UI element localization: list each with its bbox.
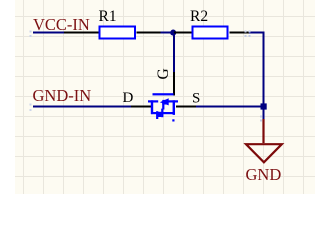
- channel bar left segment: [148, 100, 158, 102]
- resistor R1: [100, 27, 136, 39]
- bottom rail: [151, 112, 175, 114]
- resistor R2: [193, 27, 228, 39]
- wire end ghost marks: [30, 31, 32, 33]
- wire end ghost marks: [260, 116, 262, 118]
- svg-text:G: G: [155, 68, 172, 79]
- wire R2 to right corner: [249, 33, 264, 107]
- pin R2.2: [230, 32, 250, 34]
- svg-text:R1: R1: [99, 8, 117, 25]
- gate bar: [153, 93, 174, 95]
- svg-text:VCC-IN: VCC-IN: [33, 15, 90, 34]
- junction node S-net: [261, 103, 267, 109]
- sheet background: [0, 0, 315, 194]
- diode body fill: [158, 112, 162, 117]
- diode cathode bar: [161, 109, 163, 118]
- svg-text:GND-IN: GND-IN: [33, 86, 92, 105]
- svg-text:S: S: [192, 91, 200, 107]
- svg-text:D: D: [123, 90, 134, 106]
- svg-text:R2: R2: [190, 8, 208, 25]
- wire VCC rail: [33, 32, 99, 34]
- pin Q1.G: [173, 72, 175, 96]
- wire S to junction: [196, 106, 265, 108]
- wire gate vertical: [173, 33, 175, 75]
- pin Q1.D: [131, 106, 151, 108]
- pin R1.1: [64, 32, 99, 34]
- source leg: [173, 100, 175, 115]
- pin R1.2: [137, 32, 161, 34]
- wire GND stem (navy part): [263, 107, 265, 120]
- pin R2.1: [174, 32, 193, 34]
- junction node G-net: [170, 30, 176, 36]
- transistor Q1 (P-MOSFET): [148, 93, 178, 121]
- stem: [262, 119, 264, 143]
- wire R1 to junction: [161, 32, 175, 34]
- wire GND-IN rail: [33, 106, 131, 108]
- stray pin dot: [172, 119, 174, 121]
- pin Q1.S: [176, 106, 196, 108]
- wire end ghost marks: [30, 104, 32, 106]
- body arrow: [160, 98, 169, 105]
- diode anode bar: [156, 111, 158, 119]
- body stub: [162, 103, 164, 110]
- power port GND: [246, 119, 282, 162]
- drain leg: [151, 100, 153, 114]
- triangle: [246, 144, 282, 162]
- wire vertex ghost marks: [245, 31, 247, 33]
- svg-text:GND: GND: [246, 165, 282, 184]
- channel bar right segment: [168, 100, 179, 102]
